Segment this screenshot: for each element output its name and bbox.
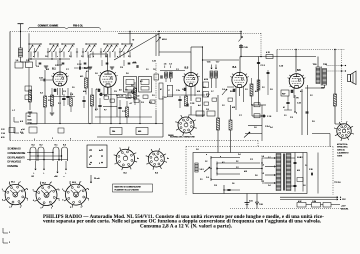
svg-text:4v: 4v (167, 158, 169, 160)
svg-text:4.15: 4.15 (1, 137, 5, 139)
svg-text:1.7: 1.7 (211, 91, 214, 93)
svg-text:C.3: C.3 (63, 91, 66, 93)
svg-text:2.2: 2.2 (58, 103, 62, 105)
svg-text:1.2: 1.2 (236, 167, 239, 169)
svg-text:5: 5 (62, 189, 63, 191)
svg-text:C.7b: C.7b (176, 90, 180, 92)
svg-text:1.6: 1.6 (303, 185, 306, 187)
svg-text:CONNESSIONE: CONNESSIONE (8, 152, 26, 155)
svg-text:1: 1 (88, 200, 89, 202)
svg-text:1.6: 1.6 (232, 183, 234, 185)
svg-text:2.4: 2.4 (270, 127, 273, 129)
svg-text:T.17: T.17 (216, 62, 221, 64)
svg-text:1: 1 (9, 232, 10, 234)
svg-text:1.3: 1.3 (48, 100, 51, 102)
svg-text:1.4: 1.4 (268, 185, 271, 187)
svg-text:6: 6 (70, 182, 71, 184)
svg-text:P30-2 OL: P30-2 OL (73, 25, 84, 27)
svg-text:C.10: C.10 (279, 66, 283, 68)
svg-text:B.1: B.1 (54, 145, 58, 147)
svg-text:M.4: M.4 (83, 91, 86, 93)
svg-text:7: 7 (51, 182, 52, 184)
svg-text:1.4: 1.4 (116, 95, 119, 97)
svg-text:B.5: B.5 (155, 173, 159, 175)
svg-text:25 mA: 25 mA (94, 177, 100, 180)
svg-text:1.1: 1.1 (146, 69, 149, 71)
svg-text:3: 3 (99, 163, 100, 165)
svg-text:4: 4 (296, 113, 297, 115)
svg-text:3.3: 3.3 (128, 56, 131, 58)
svg-text:M.6: M.6 (197, 91, 200, 93)
svg-text:3: 3 (9, 207, 10, 209)
svg-text:7: 7 (20, 182, 21, 184)
svg-text:1.7: 1.7 (268, 157, 271, 159)
svg-text:2: 2 (20, 207, 21, 209)
svg-text:4v: 4v (99, 150, 101, 152)
svg-text:2: 2 (51, 207, 52, 209)
svg-text:M.2: M.2 (255, 91, 258, 93)
svg-text:M: M (283, 107, 285, 109)
svg-text:C ALIMENTO: C ALIMENTO (337, 152, 349, 155)
svg-text:M.3: M.3 (46, 69, 49, 71)
svg-text:M.1: M.1 (80, 76, 84, 78)
svg-text:M.10: M.10 (162, 39, 167, 41)
svg-text:2.0: 2.0 (126, 73, 129, 75)
svg-text:1: 1 (27, 199, 28, 201)
svg-text:C.2: C.2 (250, 159, 253, 161)
svg-text:1.3: 1.3 (262, 173, 264, 175)
svg-text:C.7: C.7 (66, 69, 69, 71)
svg-text:12V: 12V (342, 199, 346, 201)
svg-text:4.7: 4.7 (130, 103, 134, 105)
svg-text:C.26: C.26 (309, 169, 313, 171)
svg-text:4.2: 4.2 (140, 81, 143, 83)
svg-text:C.3.4: C.3.4 (265, 126, 270, 128)
svg-text:1.6: 1.6 (45, 56, 48, 58)
svg-text:1.6: 1.6 (164, 97, 167, 99)
svg-text:M.5: M.5 (297, 170, 300, 172)
svg-text:500: 500 (321, 88, 324, 90)
svg-text:B.2: B.2 (84, 67, 88, 70)
svg-text:1.0: 1.0 (81, 56, 84, 58)
svg-text:M.9: M.9 (232, 107, 235, 109)
svg-text:B.4: B.4 (123, 173, 127, 175)
svg-text:a: a (33, 56, 34, 58)
svg-text:M: M (133, 40, 135, 42)
svg-text:4.1: 4.1 (86, 71, 89, 73)
svg-text:8: 8 (27, 189, 28, 191)
svg-text:C.52: C.52 (39, 78, 43, 80)
svg-text:SCHEMA DI: SCHEMA DI (8, 148, 21, 151)
svg-text:8: 8 (88, 189, 89, 191)
svg-text:6: 6 (9, 182, 10, 184)
svg-text:p.14: p.14 (21, 129, 25, 131)
svg-text:1.2: 1.2 (205, 161, 207, 163)
svg-text:1.7.8: 1.7.8 (267, 116, 271, 118)
svg-text:406: 406 (138, 131, 141, 133)
svg-text:1.5: 1.5 (72, 87, 75, 89)
svg-text:+: + (33, 173, 35, 175)
svg-text:B.4: B.4 (233, 66, 237, 69)
svg-text:C.2.6: C.2.6 (336, 182, 341, 184)
svg-text:4v: 4v (137, 158, 139, 160)
svg-text:M.5: M.5 (244, 171, 247, 173)
svg-text:2.6: 2.6 (62, 99, 65, 101)
svg-text:C.6: C.6 (26, 60, 29, 62)
svg-text:C.6: C.6 (206, 109, 209, 111)
svg-text:C.4: C.4 (36, 66, 39, 68)
svg-text:5: 5 (2, 189, 3, 191)
svg-text:2: 2 (9, 242, 10, 244)
svg-text:1.12: 1.12 (1, 129, 5, 131)
svg-text:M.19: M.19 (204, 79, 208, 81)
svg-text:C.7: C.7 (239, 115, 242, 117)
svg-text:FILAMENTI SULLO CHASSIS: FILAMENTI SULLO CHASSIS (115, 189, 140, 192)
svg-text:1: 1 (89, 150, 90, 152)
svg-text:3: 3 (40, 208, 41, 210)
svg-text:+: + (43, 173, 45, 175)
svg-text:7.2: 7.2 (262, 181, 264, 183)
svg-text:C.05: C.05 (244, 47, 249, 49)
svg-text:M: M (160, 89, 162, 91)
svg-text:2.61: 2.61 (249, 201, 253, 203)
svg-text:1.0: 1.0 (196, 149, 199, 151)
svg-text:1.2: 1.2 (222, 105, 225, 107)
svg-text:B.3: B.3 (63, 145, 67, 147)
svg-text:1.8: 1.8 (254, 127, 257, 129)
svg-text:1.0M: 1.0M (312, 201, 316, 203)
svg-text:k: k (93, 56, 94, 58)
svg-text:6v: 6v (89, 164, 91, 166)
svg-text:B2: B2 (32, 176, 34, 178)
svg-text:C.3: C.3 (290, 117, 293, 119)
svg-text:COMMUT. GAMME: COMMUT. GAMME (38, 24, 59, 27)
svg-text:+12V: +12V (341, 206, 346, 208)
svg-text:1.6: 1.6 (105, 56, 108, 58)
svg-text:2.1: 2.1 (200, 179, 203, 181)
svg-text:C.21: C.21 (152, 61, 156, 63)
svg-text:C.5: C.5 (114, 91, 117, 93)
svg-text:8: 8 (58, 189, 59, 191)
svg-text:SPINA DELL: SPINA DELL (337, 146, 348, 149)
svg-text:T.9: T.9 (153, 69, 155, 71)
svg-text:+: + (65, 173, 67, 175)
svg-text:ATTACCO A: ATTACCO A (337, 143, 348, 146)
svg-text:C.19: C.19 (190, 103, 195, 105)
svg-text:C.8: C.8 (70, 94, 74, 96)
svg-text:2.2: 2.2 (236, 161, 238, 163)
svg-text:1.9: 1.9 (270, 89, 273, 91)
svg-text:4: 4 (33, 200, 34, 202)
svg-text:7: 7 (80, 181, 81, 183)
svg-text:1.1: 1.1 (284, 115, 287, 117)
svg-text:B.5: B.5 (297, 70, 301, 72)
svg-text:C.17: C.17 (122, 111, 127, 113)
svg-text:2.0: 2.0 (21, 133, 24, 135)
svg-text:DI VALVOLE: DI VALVOLE (8, 161, 22, 164)
svg-text:DIVERSE: DIVERSE (8, 165, 19, 168)
svg-text:204: 204 (112, 131, 115, 133)
svg-text:2: 2 (81, 207, 82, 209)
svg-text:DEI FILAMENTI: DEI FILAMENTI (8, 156, 25, 159)
svg-text:2.3: 2.3 (152, 95, 155, 97)
svg-text:4: 4 (62, 200, 63, 202)
svg-text:T.19: T.19 (313, 64, 318, 66)
svg-text:C.18: C.18 (297, 103, 301, 105)
svg-text:5.6: 5.6 (262, 156, 264, 158)
svg-text:CAVO AL: CAVO AL (337, 149, 345, 152)
svg-text:7ORE: 7ORE (337, 155, 343, 157)
svg-text:1.2: 1.2 (310, 95, 313, 97)
svg-text:B.1: B.1 (11, 182, 15, 184)
svg-text:4.8: 4.8 (119, 90, 122, 92)
svg-text:1.6: 1.6 (16, 60, 19, 62)
svg-text:7.58: 7.58 (259, 204, 263, 206)
svg-text:c: c (64, 176, 65, 178)
svg-text:C.1: C.1 (176, 69, 179, 71)
svg-text:C.8: C.8 (214, 185, 217, 187)
svg-text:M.2: M.2 (149, 102, 152, 104)
svg-text:C: C (169, 90, 171, 92)
svg-text:6: 6 (40, 182, 41, 184)
svg-text:B.3: B.3 (185, 67, 189, 70)
svg-text:2.8: 2.8 (203, 87, 206, 89)
svg-text:1.0: 1.0 (95, 73, 98, 75)
svg-text:1.1: 1.1 (305, 165, 307, 167)
svg-text:250: 250 (28, 116, 31, 118)
svg-text:L.7: L.7 (12, 110, 16, 112)
svg-text:4.1: 4.1 (222, 162, 225, 164)
svg-text:B.04: B.04 (28, 119, 32, 121)
svg-text:C.4: C.4 (222, 89, 225, 91)
svg-text:3: 3 (70, 139, 71, 141)
svg-text:2.6: 2.6 (255, 175, 258, 177)
svg-text:2: 2 (89, 157, 90, 159)
svg-text:3.2: 3.2 (300, 157, 303, 159)
svg-text:C.9: C.9 (120, 67, 123, 69)
svg-text:3: 3 (70, 207, 71, 209)
svg-text:C.12: C.12 (77, 64, 82, 66)
svg-text:1: 1 (59, 200, 60, 202)
svg-text:2.5: 2.5 (170, 73, 173, 75)
svg-text:2.9: 2.9 (312, 121, 315, 123)
svg-text:a: a (117, 56, 118, 58)
svg-text:4.7K: 4.7K (266, 52, 271, 54)
svg-text:1: 1 (34, 139, 35, 141)
svg-text:5: 5 (33, 189, 34, 191)
svg-text:+B4: +B4 (54, 176, 57, 178)
svg-text:C.1.3: C.1.3 (261, 65, 265, 67)
svg-text:1.2: 1.2 (55, 65, 58, 67)
svg-text:B.4: B.4 (31, 145, 35, 147)
svg-text:SCHEMA DEL VIBRATORE: SCHEMA DEL VIBRATORE (170, 136, 195, 139)
svg-text:1.8: 1.8 (164, 64, 167, 66)
svg-text:R27: R27 (282, 94, 285, 96)
svg-text:1.8: 1.8 (125, 90, 128, 92)
svg-text:C.4: C.4 (206, 177, 209, 179)
svg-text:1.0: 1.0 (137, 96, 141, 98)
svg-text:ACCUM.: ACCUM. (341, 207, 349, 210)
svg-text:S.2: S.2 (40, 93, 43, 95)
svg-text:a: a (206, 154, 207, 156)
svg-text:A.54: A.54 (28, 121, 32, 124)
svg-text:M.7: M.7 (104, 95, 107, 97)
svg-text:2.4: 2.4 (69, 56, 72, 58)
svg-text:4.1: 4.1 (95, 109, 99, 111)
svg-text:C.14: C.14 (1, 133, 5, 135)
svg-text:2: 2 (52, 138, 53, 140)
svg-text:C.16: C.16 (119, 96, 124, 98)
svg-text:c: c (57, 56, 58, 58)
svg-text:4.9: 4.9 (20, 121, 24, 123)
svg-text:M.8: M.8 (133, 62, 136, 64)
svg-text:1.8: 1.8 (169, 64, 172, 66)
svg-text:3.6: 3.6 (230, 91, 233, 93)
svg-text:P.7: P.7 (104, 110, 106, 112)
svg-text:TR: TR (296, 98, 299, 100)
svg-text:1.8: 1.8 (131, 85, 134, 87)
svg-text:2.2: 2.2 (262, 87, 265, 89)
svg-text:T.16: T.16 (207, 62, 212, 64)
svg-text:B.3: B.3 (72, 182, 76, 184)
svg-text:B.1: B.1 (52, 68, 56, 71)
svg-text:1.6.1: 1.6.1 (200, 169, 204, 171)
svg-text:4.4: 4.4 (198, 105, 201, 107)
svg-text:1.2: 1.2 (262, 165, 264, 167)
svg-text:1.9: 1.9 (141, 102, 144, 104)
svg-text:B.2: B.2 (39, 145, 43, 147)
svg-text:4.6: 4.6 (300, 91, 303, 93)
svg-text:Consuma 2,8 A a 12 V. (N. valo: Consuma 2,8 A a 12 V. (N. valori a parte… (140, 224, 233, 229)
svg-text:4: 4 (2, 200, 3, 202)
svg-text:2.4: 2.4 (238, 154, 241, 156)
svg-text:1.3: 1.3 (245, 89, 248, 91)
svg-text:MAESTRO DI COMMUTAZIONE: MAESTRO DI COMMUTAZIONE (115, 185, 142, 188)
